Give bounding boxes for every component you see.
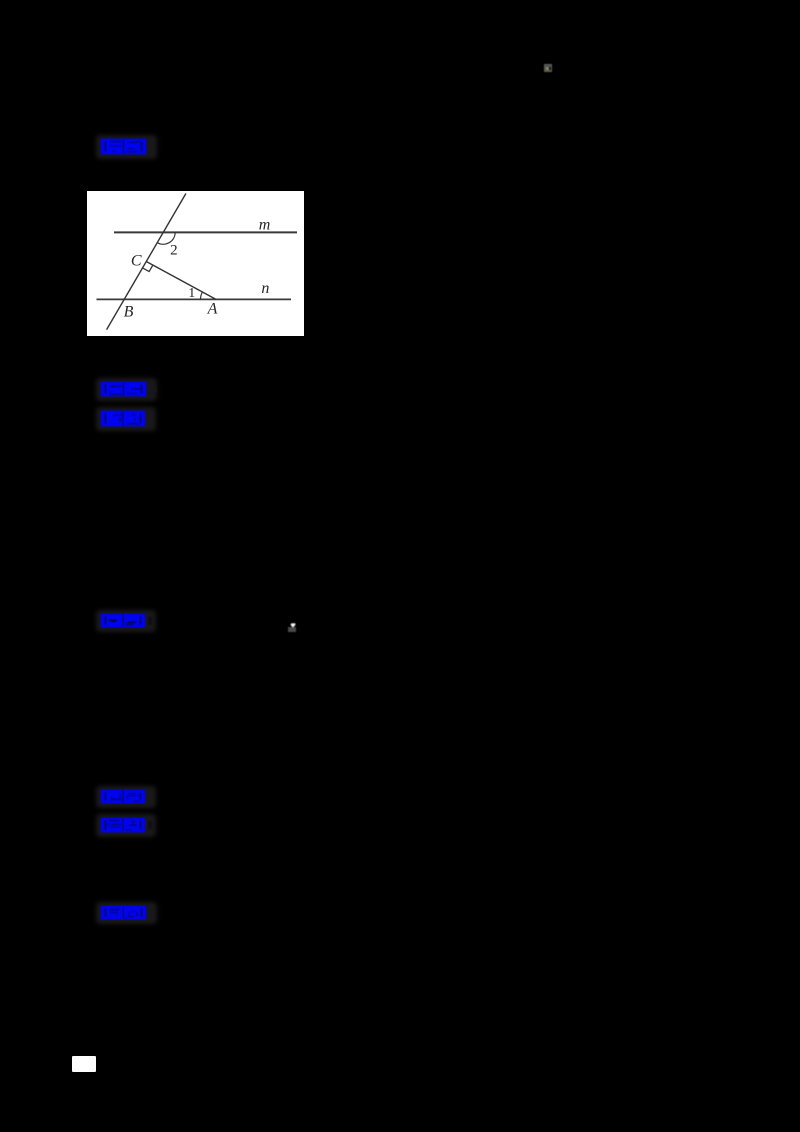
angle 1 arc	[201, 292, 203, 299]
faint mark after label 6	[148, 821, 152, 829]
right angle mark at C	[143, 265, 153, 271]
transversal line through B and C	[107, 194, 186, 330]
svg-text:n: n	[261, 280, 269, 297]
svg-text:A: A	[207, 301, 218, 318]
svg-text:1: 1	[188, 286, 195, 301]
faint mark after label 4	[148, 617, 152, 625]
blue heading label 1 fenxi	[96, 135, 157, 159]
line n	[97, 298, 292, 300]
geometry figure panel	[87, 191, 304, 336]
tiny white-diamond icon mid page	[288, 627, 296, 632]
blue heading label 5 xiangjie	[96, 786, 156, 808]
faint answer letter after label 2	[148, 381, 158, 398]
blue heading label 2 daan	[96, 378, 157, 401]
segment C A	[146, 262, 216, 300]
tiny status icon top right	[544, 64, 552, 72]
blue heading label 4 fenxi	[96, 610, 156, 632]
svg-text:C: C	[131, 253, 142, 270]
blue heading label 6 jiexi	[96, 814, 156, 837]
line m	[114, 231, 297, 233]
small white rectangle bottom left	[72, 1056, 97, 1072]
svg-text:2: 2	[170, 243, 178, 259]
svg-text:m: m	[259, 217, 271, 234]
svg-text:B: B	[124, 304, 134, 321]
blue heading label 7 dianjing	[96, 902, 157, 924]
blue heading label 3 jiexi	[96, 407, 156, 431]
angle 2 arc	[157, 232, 175, 244]
